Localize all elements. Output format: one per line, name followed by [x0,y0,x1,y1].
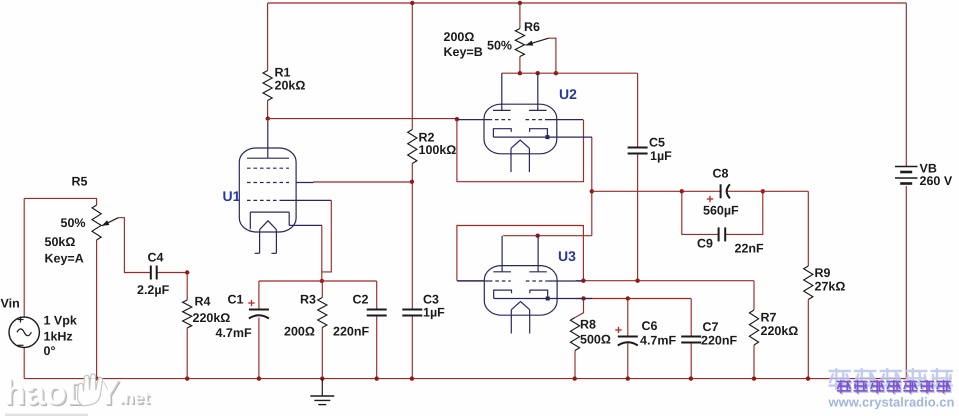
node bottom rail junction [410,376,414,380]
potentiometer R5 [45,175,119,266]
node bottom rail junction [626,376,630,380]
svg-text:C8: C8 [713,167,729,181]
wire R2 top lead [411,3,413,130]
node R6 bottom junction [518,71,522,75]
wire U2 grid loop [457,119,584,182]
node R6 wiper junction [554,71,558,75]
wire R7 top lead [753,281,755,310]
wire cathode to C8 [592,190,721,192]
node bottom rail junction [752,376,756,380]
svg-text:500Ω: 500Ω [580,333,611,347]
svg-text:260 V: 260 V [920,174,953,188]
node U2 right pin junction [536,71,540,75]
wire R6 bottom lead [519,57,521,74]
wire C2 bottom lead [376,316,378,379]
svg-text:560µF: 560µF [703,204,739,218]
node bottom rail junction [689,376,693,380]
resistor R1 [263,66,305,101]
svg-text:1µF: 1µF [650,149,672,163]
node bottom rail junction [573,376,577,380]
wire R1 top lead [267,3,269,71]
capacitor C7 [681,320,737,348]
wire U1 cathode route [321,225,323,281]
node R8 junction [581,296,585,300]
wire plate net to U2 grid [268,118,457,120]
svg-text:C9: C9 [697,237,713,251]
wire R4 top lead [186,273,188,301]
svg-text:Key=B: Key=B [444,45,483,59]
wire top B+ rail [268,2,907,4]
node bottom rail junction [375,376,379,380]
svg-text:220nF: 220nF [701,334,737,348]
node C8 right junction [761,189,765,193]
node U1 screen grid junction [410,180,414,184]
svg-text:C1: C1 [228,293,244,307]
svg-text:200Ω: 200Ω [444,30,475,44]
resistor R8 [570,318,610,351]
svg-text:200Ω: 200Ω [284,325,315,339]
wire Vin top [23,198,25,317]
node bottom rail junction [320,376,324,380]
wire R8 bottom lead [574,351,576,379]
wire R2 C3 link [411,182,413,310]
svg-text:R3: R3 [300,293,316,307]
wire C3 bottom lead [411,316,413,379]
resistor R7 [749,310,798,345]
svg-text:C4: C4 [148,251,164,265]
triode U1 [223,121,332,253]
node C6 top junction [626,296,630,300]
watermark crystalradio [828,369,955,410]
svg-text:C5: C5 [649,136,665,150]
wire C5 top lead [637,73,639,147]
resistor R2 [408,130,457,164]
ground [310,379,334,405]
svg-text:Key=A: Key=A [45,252,84,266]
wire U3 cathode rail [576,298,691,300]
svg-text:220nF: 220nF [333,325,369,339]
svg-text:R4: R4 [195,295,211,309]
svg-text:U3: U3 [558,248,576,264]
wire R2 bottom lead [411,164,413,182]
node U2 cathode junction [590,189,594,193]
capacitor C1 [216,293,269,341]
node C9 branch junction [680,189,684,193]
node C5 bottom junction [635,279,639,283]
watermark bottom smudge [5,414,88,416]
svg-text:1 Vpk: 1 Vpk [44,314,77,328]
svg-text:1kHz: 1kHz [44,330,73,344]
svg-text:22nF: 22nF [735,242,765,256]
node bottom rail junction [257,376,261,380]
wire bottom ground rail [24,378,906,380]
wire C5 bottom lead [637,154,639,281]
svg-text:www.crystalradio.cn: www.crystalradio.cn [828,395,955,410]
svg-text:R7: R7 [761,311,777,325]
svg-text:U2: U2 [559,86,577,102]
wire R6 top lead [519,3,521,29]
wire C9 loop left [682,191,719,234]
wire C6 top lead [627,299,629,337]
node bottom rail junction [185,376,189,380]
wire U2 cathode drop [591,137,593,236]
wire C7 top lead [690,299,692,337]
node bottom rail junction [806,376,810,380]
wire U1 g3 route [322,200,332,272]
node U1 plate junction [266,116,270,120]
wire C6 bottom lead [627,343,629,379]
svg-text:50%: 50% [61,216,86,230]
wire C2 top lead [376,281,378,310]
resistor R4 [183,295,231,329]
wire C1 top lead [258,281,260,310]
svg-text:C3: C3 [423,293,439,307]
wire C4 to R4 [157,272,188,274]
svg-text:100kΩ: 100kΩ [419,143,457,157]
wire C1 bottom lead [258,318,260,379]
capacitor C4 [137,251,170,298]
wire VB bottom lead [905,186,907,379]
node U1 cathode junction [320,279,324,283]
wire R9 bottom lead [807,300,809,379]
resistor R9 [804,266,846,300]
node U2 grid left junction [455,117,459,121]
capacitor C9 [697,227,764,255]
node R6 top rail junction [518,1,522,5]
wire R5 wiper drop [118,218,151,273]
capacitor C5 [628,136,673,164]
svg-text:C7: C7 [703,320,719,334]
wire R7 bottom lead [753,345,755,379]
wire VB top lead [905,3,907,166]
svg-text:R9: R9 [815,266,831,280]
triode U2 [457,73,592,172]
svg-text:2.2µF: 2.2µF [137,283,170,297]
wire U1 g2 to R2 [313,181,411,183]
wire Vin bottom [23,347,25,378]
svg-text:0°: 0° [44,344,56,358]
svg-text:220kΩ: 220kΩ [761,324,799,338]
battery VB [895,162,953,189]
wire R6 wiper drop [549,38,556,73]
svg-text:27kΩ: 27kΩ [815,280,846,294]
resistor R3 [284,293,327,339]
wire R3 bottom lead [321,328,323,379]
svg-text:C2: C2 [353,293,369,307]
wire R8 jog [575,299,584,318]
wire C7 bottom lead [690,343,692,379]
svg-text:1µF: 1µF [423,306,445,320]
triode U3 [457,236,592,334]
wire U3 grid left stub wire [457,280,485,282]
capacitor C3 [402,293,445,320]
potentiometer R6 [444,20,549,59]
svg-text:.net: .net [119,388,150,407]
wire C8 to R9 [727,190,808,192]
wire R5 bottom lead [96,240,98,379]
svg-text:R5: R5 [72,175,88,189]
wire U3 grid row to R7 [576,280,754,282]
wire R5 top link [24,198,96,205]
svg-text:50kΩ: 50kΩ [45,235,76,249]
wire U3 plate pins rail [503,235,592,237]
wire R9 top lead [807,191,809,266]
svg-text:4.7mF: 4.7mF [640,334,676,348]
svg-text:R6: R6 [524,20,540,34]
wire U3 grid loop [457,226,584,281]
wire R4 bottom lead [186,328,188,379]
svg-text:Vin: Vin [1,297,20,311]
wire R1 bottom to plate node [267,101,269,119]
capacitor C2 [333,293,387,339]
svg-text:R1: R1 [275,66,291,80]
wire R3 top lead [321,281,323,298]
wire C9 loop right [725,191,763,234]
capacitor C6 [615,319,676,348]
node bottom rail junction [94,376,98,380]
svg-text:U1: U1 [223,188,241,204]
node U3 grid loop junction [581,279,585,283]
svg-text:220kΩ: 220kΩ [193,311,231,325]
svg-text:20kΩ: 20kΩ [275,79,306,93]
source Vin [1,297,77,359]
svg-text:R8: R8 [580,318,596,332]
node U3 right pin junction [536,234,540,238]
node R2 top rail junction [410,1,414,5]
watermark haoDY.net [4,373,152,414]
wire C1 R3 C2 rail [259,280,377,282]
svg-text:50%: 50% [487,38,512,52]
svg-text:C6: C6 [642,319,658,333]
wire U2 plate rail [502,72,638,74]
capacitor C8 [703,167,739,218]
svg-text:4.7mF: 4.7mF [216,326,252,340]
node C4 R4 junction [185,270,189,274]
